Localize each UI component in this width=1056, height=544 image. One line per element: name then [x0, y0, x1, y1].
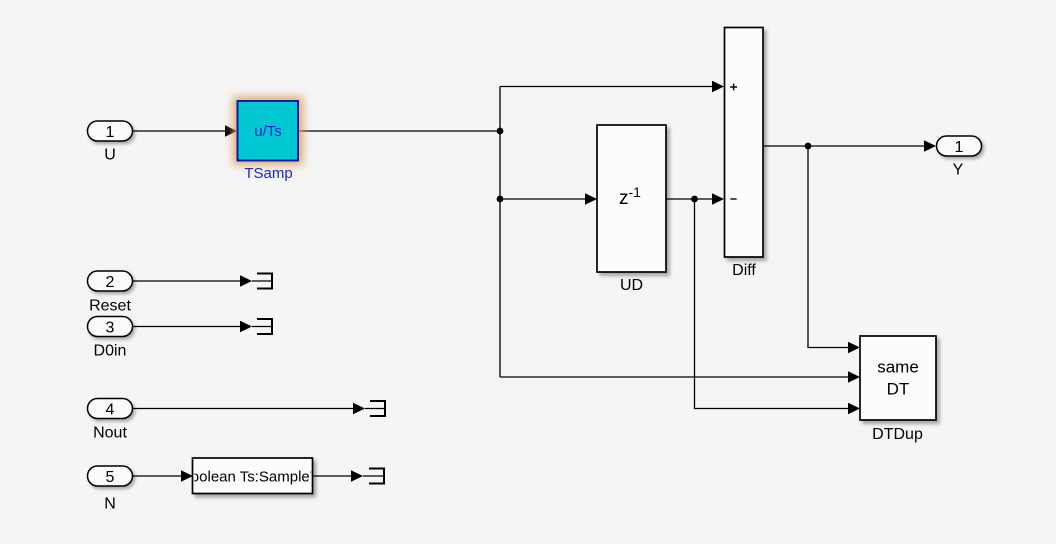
- wire: main vertical branch: [499, 87, 501, 378]
- block UD (unit delay): [597, 125, 666, 272]
- svg-text:UD: UD: [620, 277, 643, 294]
- svg-text:2: 2: [106, 274, 115, 291]
- glow of TSamp: [233, 97, 303, 166]
- node: junction to UD: [497, 196, 504, 203]
- wire: Inport 1 to TSamp: [132, 130, 226, 132]
- port bracket for Reset: [257, 273, 272, 290]
- svg-text:Reset: Reset: [89, 298, 131, 315]
- svg-text:Diff: Diff: [732, 262, 756, 279]
- svg-text:1: 1: [106, 124, 115, 141]
- port bracket for Nout: [370, 400, 385, 417]
- block TSamp: [238, 101, 299, 161]
- outport Y: [937, 136, 982, 156]
- inport 5: [88, 466, 133, 486]
- wire: branch to UD input: [500, 198, 586, 200]
- port bracket for N line: [369, 468, 384, 485]
- inport 3: [88, 317, 133, 337]
- wire: TSamp output to junction: [298, 130, 500, 132]
- node: junction on Diff output: [805, 143, 812, 150]
- block Diff (sum): [725, 28, 764, 258]
- wire: Inport 5 to boolean block: [132, 475, 182, 477]
- svg-text:DTDup: DTDup: [872, 426, 923, 443]
- svg-text:N: N: [104, 496, 116, 513]
- svg-text:Y: Y: [953, 162, 964, 179]
- wire: Inport 3 to terminator: [132, 326, 241, 328]
- block boolean conversion: [193, 458, 313, 494]
- svg-text:Nout: Nout: [93, 425, 127, 442]
- svg-text:DT: DT: [887, 380, 910, 399]
- block DTDup (same DT): [860, 336, 936, 420]
- svg-text:U: U: [104, 147, 116, 164]
- wire: bottom branch to DTDup input 2: [500, 376, 849, 378]
- node: junction on UD output: [691, 196, 698, 203]
- svg-text:u/Ts: u/Ts: [254, 123, 282, 140]
- svg-text:1: 1: [955, 139, 964, 156]
- wire: Inport 4 to terminator: [132, 408, 354, 410]
- inport 2: [88, 271, 133, 291]
- port bracket for D0in: [257, 318, 272, 335]
- svg-text:same: same: [877, 358, 919, 377]
- inport 4: [88, 399, 133, 419]
- inport 1: [88, 121, 133, 141]
- wire: Inport 2 to terminator: [132, 280, 241, 282]
- wire: vertical from UD output junction down: [695, 199, 850, 409]
- wire: UD output to Diff minus input: [666, 198, 713, 200]
- svg-text:4: 4: [106, 401, 115, 418]
- wire: boolean block to terminator: [312, 475, 352, 477]
- svg-text:TSamp: TSamp: [244, 165, 292, 182]
- node: junction on TSamp output: [497, 128, 504, 135]
- wire: branch to Diff plus input: [500, 86, 713, 88]
- svg-text:3: 3: [106, 319, 115, 336]
- svg-text:5: 5: [106, 469, 115, 486]
- wire: vertical from Diff output junction to DTDup input 1: [808, 146, 849, 348]
- wire: Diff output to Outport Y: [763, 145, 925, 147]
- svg-text:D0in: D0in: [94, 343, 127, 360]
